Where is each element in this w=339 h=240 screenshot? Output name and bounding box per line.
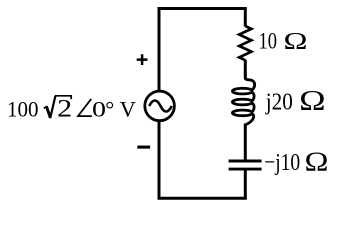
svg-text:0: 0 bbox=[92, 96, 106, 121]
voltage source V1 sine wave bbox=[149, 101, 172, 112]
wire bottom run: source bottom to bottom-left corner, bottom side, up to capacitor bbox=[159, 120, 245, 198]
svg-text:j20: j20 bbox=[265, 89, 293, 116]
wire: inductor to capacitor bbox=[244, 124, 247, 161]
capacitor C -j10ohm top plate bbox=[229, 160, 262, 163]
svg-text:°: ° bbox=[105, 96, 114, 121]
- polarity mark bbox=[137, 146, 150, 149]
wire: resistor to inductor bbox=[244, 60, 247, 78]
svg-text:Ω: Ω bbox=[284, 28, 308, 55]
label: angle symbol bbox=[78, 99, 92, 116]
wire top run: source top to top-left corner, top side, down to resistor bbox=[159, 9, 245, 92]
resistor R 10ohm zigzag bbox=[239, 26, 251, 60]
svg-text:10: 10 bbox=[259, 28, 278, 53]
inductor L j20ohm coil bbox=[232, 77, 254, 126]
svg-text:V: V bbox=[120, 96, 136, 121]
+ polarity mark bbox=[137, 54, 148, 65]
svg-text:Ω: Ω bbox=[299, 86, 326, 117]
svg-text:Ω: Ω bbox=[305, 147, 329, 177]
capacitor C -j10ohm bottom plate bbox=[229, 168, 262, 171]
svg-text:100: 100 bbox=[7, 96, 39, 121]
svg-text:2: 2 bbox=[57, 95, 72, 122]
voltage source V1 circle bbox=[145, 91, 175, 121]
label: radical sign of sqrt(2) bbox=[44, 106, 47, 108]
svg-text:−j10: −j10 bbox=[264, 149, 300, 176]
